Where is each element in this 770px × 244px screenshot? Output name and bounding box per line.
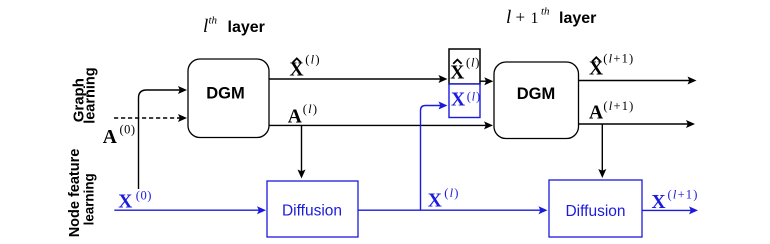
block DGM U2 (layer l+1) [494, 62, 579, 139]
svg-text:(l): (l) [305, 53, 320, 67]
block DGM U1 (layer l) [188, 59, 269, 138]
label A(0) [103, 123, 136, 149]
label X(0) [118, 188, 152, 212]
wire: A(l+1) output [579, 120, 696, 128]
svg-text:Diffusion: Diffusion [282, 203, 342, 220]
svg-text:(l): (l) [466, 56, 480, 70]
svg-text:X: X [450, 63, 464, 84]
svg-text:X: X [118, 192, 132, 213]
svg-text:A: A [589, 103, 603, 124]
title: l-th layer [203, 15, 265, 38]
svg-text:th: th [541, 6, 550, 18]
svg-text:X: X [589, 59, 603, 80]
wire: A(l+1) branch down to Diffusion D2 [598, 124, 606, 178]
wire: Diffusion D1 to Diffusion D2 (blue) [358, 206, 548, 214]
svg-text:X: X [451, 89, 465, 110]
svg-text:learning: learning [82, 67, 98, 123]
box buffer X(l) [449, 84, 481, 118]
label X(l+1) [652, 187, 699, 213]
wire: buffer to DGM2 [480, 77, 493, 85]
label X(l) [428, 186, 460, 212]
label X-hat(l) [290, 53, 321, 81]
wire: A(l) branch down to Diffusion D1 [298, 125, 306, 178]
label X-hat(l+1) [589, 52, 634, 80]
wire: X-hat(l+1) output [579, 77, 697, 85]
svg-text:(l+1): (l+1) [668, 187, 699, 201]
wire: X(0) into Diffusion D1 (blue) [114, 206, 266, 214]
wire: A(l) from DGM1 to DGM2 [269, 121, 493, 129]
title: l+1-th layer [506, 6, 596, 29]
svg-text:X: X [428, 191, 442, 212]
wire: A(0) dashed into DGM1 [114, 114, 187, 122]
svg-text:(l+1): (l+1) [603, 52, 634, 66]
wire: X-hat(l) from DGM1 to buffer [269, 75, 448, 83]
svg-text:+: + [516, 8, 526, 27]
svg-text:A: A [288, 106, 302, 127]
svg-text:layer: layer [228, 19, 265, 36]
svg-text:X: X [652, 192, 666, 213]
svg-text:(l+1): (l+1) [603, 99, 634, 113]
svg-text:layer: layer [559, 10, 596, 27]
svg-text:(l): (l) [444, 186, 459, 200]
svg-text:1: 1 [531, 10, 539, 27]
svg-text:DGM: DGM [517, 85, 556, 103]
svg-text:(0): (0) [120, 123, 136, 137]
svg-text:DGM: DGM [206, 85, 245, 103]
label A(l+1) [589, 99, 635, 124]
svg-text:(l): (l) [303, 102, 318, 116]
label A(l) [288, 102, 319, 128]
svg-text:th: th [209, 15, 218, 27]
block Diffusion D1 (layer l) [267, 181, 358, 237]
box buffer X-hat(l) [449, 49, 480, 84]
wire: X(l+1) output (blue) [642, 206, 698, 214]
svg-text:(l): (l) [467, 89, 481, 103]
label: Graph learning (rotated) [70, 67, 98, 123]
svg-text:(0): (0) [136, 188, 152, 202]
svg-text:Diffusion: Diffusion [565, 203, 625, 220]
wire: X(0) up into DGM1 [139, 86, 188, 189]
svg-text:l: l [203, 16, 208, 37]
svg-text:X: X [290, 60, 304, 81]
block Diffusion D2 (layer l+1) [549, 180, 642, 237]
label: Node feature learning (rotated) [67, 149, 96, 238]
svg-text:l: l [506, 7, 511, 28]
wire: X(l) branch up to buffer (blue) [421, 102, 448, 211]
svg-text:A: A [103, 127, 117, 148]
svg-text:learning: learning [82, 173, 97, 225]
